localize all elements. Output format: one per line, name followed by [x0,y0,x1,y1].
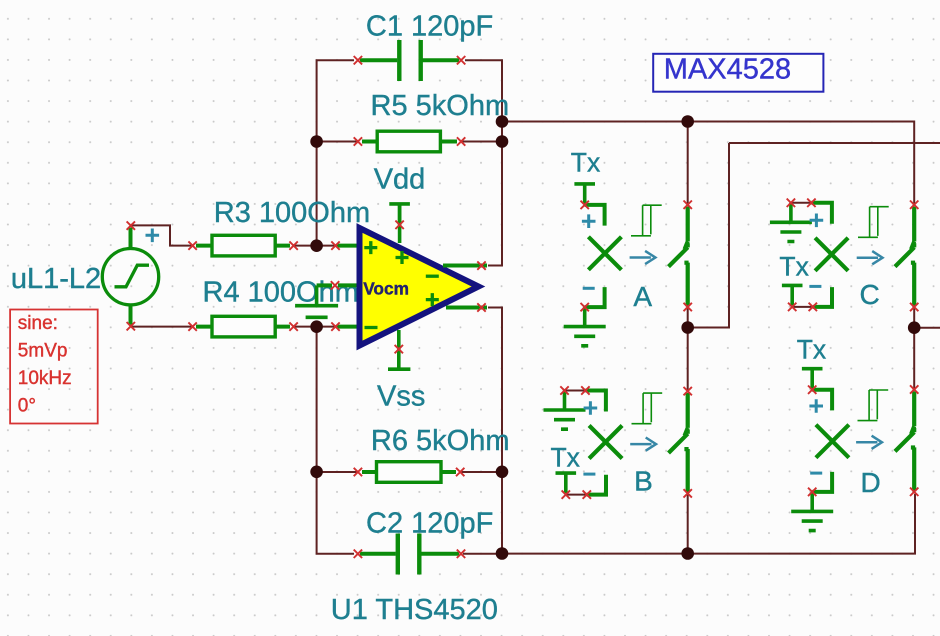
switch B [669,393,690,493]
controlled switch D multiplier [816,425,849,458]
wire op-amp -in lead [337,325,359,329]
wire R5 left link [317,141,358,143]
svg-text:R3 100Ohm: R3 100Ohm [214,197,370,229]
polarity + C [810,214,824,228]
polarity + source [146,229,160,243]
svg-text:Tx: Tx [779,252,808,282]
wire source top to R3 [131,225,192,245]
svg-text:R5 5kOhm: R5 5kOhm [371,90,510,122]
IC label MAX4528 [653,54,823,92]
switch C [895,207,916,307]
jumper Tx D [802,369,823,389]
svg-text:R6 5kOhm: R6 5kOhm [371,425,510,457]
pins switch A [581,201,692,312]
controlled switch C multiplier [815,238,848,271]
ground B [544,391,586,430]
svg-text:Vdd: Vdd [374,163,426,195]
wire output rail right [729,142,940,144]
power Vdd terminal [389,204,410,224]
pins R6 [354,468,465,476]
control + elbow C [811,203,832,224]
svg-text:MAX4528: MAX4528 [664,53,791,85]
wire ground to plus pin B [565,390,586,392]
arrow D [856,436,882,449]
hysteresis symbol D [858,390,889,421]
node R5 right [496,135,509,148]
power Vss terminal [388,367,410,371]
switch A [669,207,690,307]
source parameter box [10,310,98,424]
wire op-amp out+ lead [446,306,487,310]
pins switch B [560,386,692,499]
node switch A top [681,115,694,128]
wire op-amp +in lead [337,244,359,248]
wire lower-left feedback rail [317,327,354,554]
polarity + D [809,399,823,413]
wire switch C bottom to switch D top [913,307,915,389]
pin Vdd [395,221,403,229]
svg-text:R4 100Ohm: R4 100Ohm [203,277,359,309]
voltage source uL1-L2 [102,228,158,325]
wire Vocm lead [338,283,359,287]
ground Vocm [295,286,338,318]
polarity - B [583,473,595,475]
pins source [127,221,135,330]
wire Vdd stem [398,204,402,243]
op-amp out+ mark [426,293,439,306]
wire R6 right link [460,471,502,473]
svg-text:C1 120pF: C1 120pF [366,11,493,43]
hysteresis symbol B [632,393,663,424]
wire source bottom to R4 [131,326,193,328]
controlled switch A multiplier [588,237,621,270]
ground A [564,307,606,346]
wire R5 right link [461,141,502,143]
resistor R5 [362,131,457,152]
control - elbow D [812,472,832,492]
op-amp +in mark [364,241,377,254]
polarity + B [584,401,598,415]
controlled switch B multiplier [589,426,622,459]
resistor R3 [196,235,290,256]
wire op-amp out+ / lower-right rail [488,308,502,554]
capacitor C1 [360,40,459,81]
arrow C [857,251,883,264]
pins switch D [808,385,918,496]
svg-text:C: C [860,279,880,310]
ground C [770,203,812,242]
svg-text:Tx: Tx [797,334,826,364]
ground D [791,492,833,531]
wire bottom rail to switch D [502,494,915,554]
svg-text:U1 THS4520: U1 THS4520 [331,594,498,626]
svg-text:0°: 0° [18,396,36,417]
node R6 left [310,466,323,479]
switch D [895,391,916,491]
wire Vss stem [397,330,401,369]
pins C1 [354,56,466,64]
capacitor C2 [360,534,459,575]
hysteresis symbol C [858,207,889,238]
wire C1 right / upper-right rail to op-amp out- [465,60,502,265]
pins R3 [188,241,297,249]
node bottom rail mid [681,547,694,560]
control - elbow B [587,475,606,495]
node op-amp +in [310,239,323,252]
svg-text:Vocm: Vocm [363,278,409,298]
wire op-amp out- lead [443,264,487,268]
pins R5 [354,137,466,145]
wire output stub right from node [914,327,940,329]
jumper Tx A [574,184,595,204]
control - elbow A [585,287,605,307]
wire rail down to node between A and B [688,143,729,328]
wire R4 to op-amp -in node [294,326,336,328]
wire Tx to - pin B [566,494,587,496]
op-amp -in mark [365,326,378,329]
control + elbow A [585,205,605,226]
arrow B [630,438,656,451]
polarity - A [583,287,595,289]
op-amp U1 THS4520 [360,228,479,346]
pins R4 [188,322,297,330]
svg-text:Tx: Tx [571,147,600,177]
svg-text:5mVp: 5mVp [18,340,68,361]
svg-text:C2 120pF: C2 120pF [366,508,493,540]
node bottom rail left [496,547,509,560]
resistor R6 [362,462,456,483]
svg-text:B: B [634,466,653,497]
control + elbow D [812,390,832,411]
jumper Tx B [556,473,577,493]
wire Vocm link left [317,283,332,287]
wire ground to plus pin C [791,202,812,204]
svg-text:sine:: sine: [18,313,58,334]
control + elbow B [585,391,606,412]
wire Tx to - pin C [792,306,813,308]
svg-text:10kHz: 10kHz [18,368,72,389]
control - elbow C [813,287,832,307]
svg-text:uL1-L2: uL1-L2 [11,263,101,295]
svg-text:D: D [861,467,881,498]
node R6 right [496,466,509,479]
node R5 left [310,135,323,148]
node top rail left [496,115,509,128]
wire top rail to switch C [502,122,914,205]
wire top rail down to switch A [687,122,689,205]
wire C2 right link [463,553,502,555]
node A-B midpoint [681,321,694,334]
resistor R4 [196,316,290,337]
op-amp out- mark [426,275,439,278]
polarity - D [810,472,822,474]
wire switch B bottom to bottom rail [687,494,689,554]
pins op-amp outputs [477,261,485,311]
polarity - C [809,285,821,287]
wire upper-left feedback rail [317,60,354,246]
pins C2 [354,550,466,558]
node op-amp -in [310,320,323,333]
jumper Tx C [782,285,803,305]
wire switch A bottom to switch B top [687,307,689,391]
hysteresis symbol A [631,205,662,236]
wire R3 to op-amp +in node [294,245,336,247]
arrow A [630,251,656,264]
svg-text:A: A [633,281,652,312]
pin Vocm [331,281,339,289]
pins switch C [787,199,919,312]
pin Vss [395,345,403,353]
svg-text:Vss: Vss [377,381,425,413]
svg-text:Tx: Tx [551,443,580,473]
node C-D midpoint [908,321,921,334]
pins op-amp inputs [331,241,339,330]
polarity + A [582,214,596,228]
op-amp inner + mark [396,251,409,264]
wire R6 left link [317,471,358,473]
